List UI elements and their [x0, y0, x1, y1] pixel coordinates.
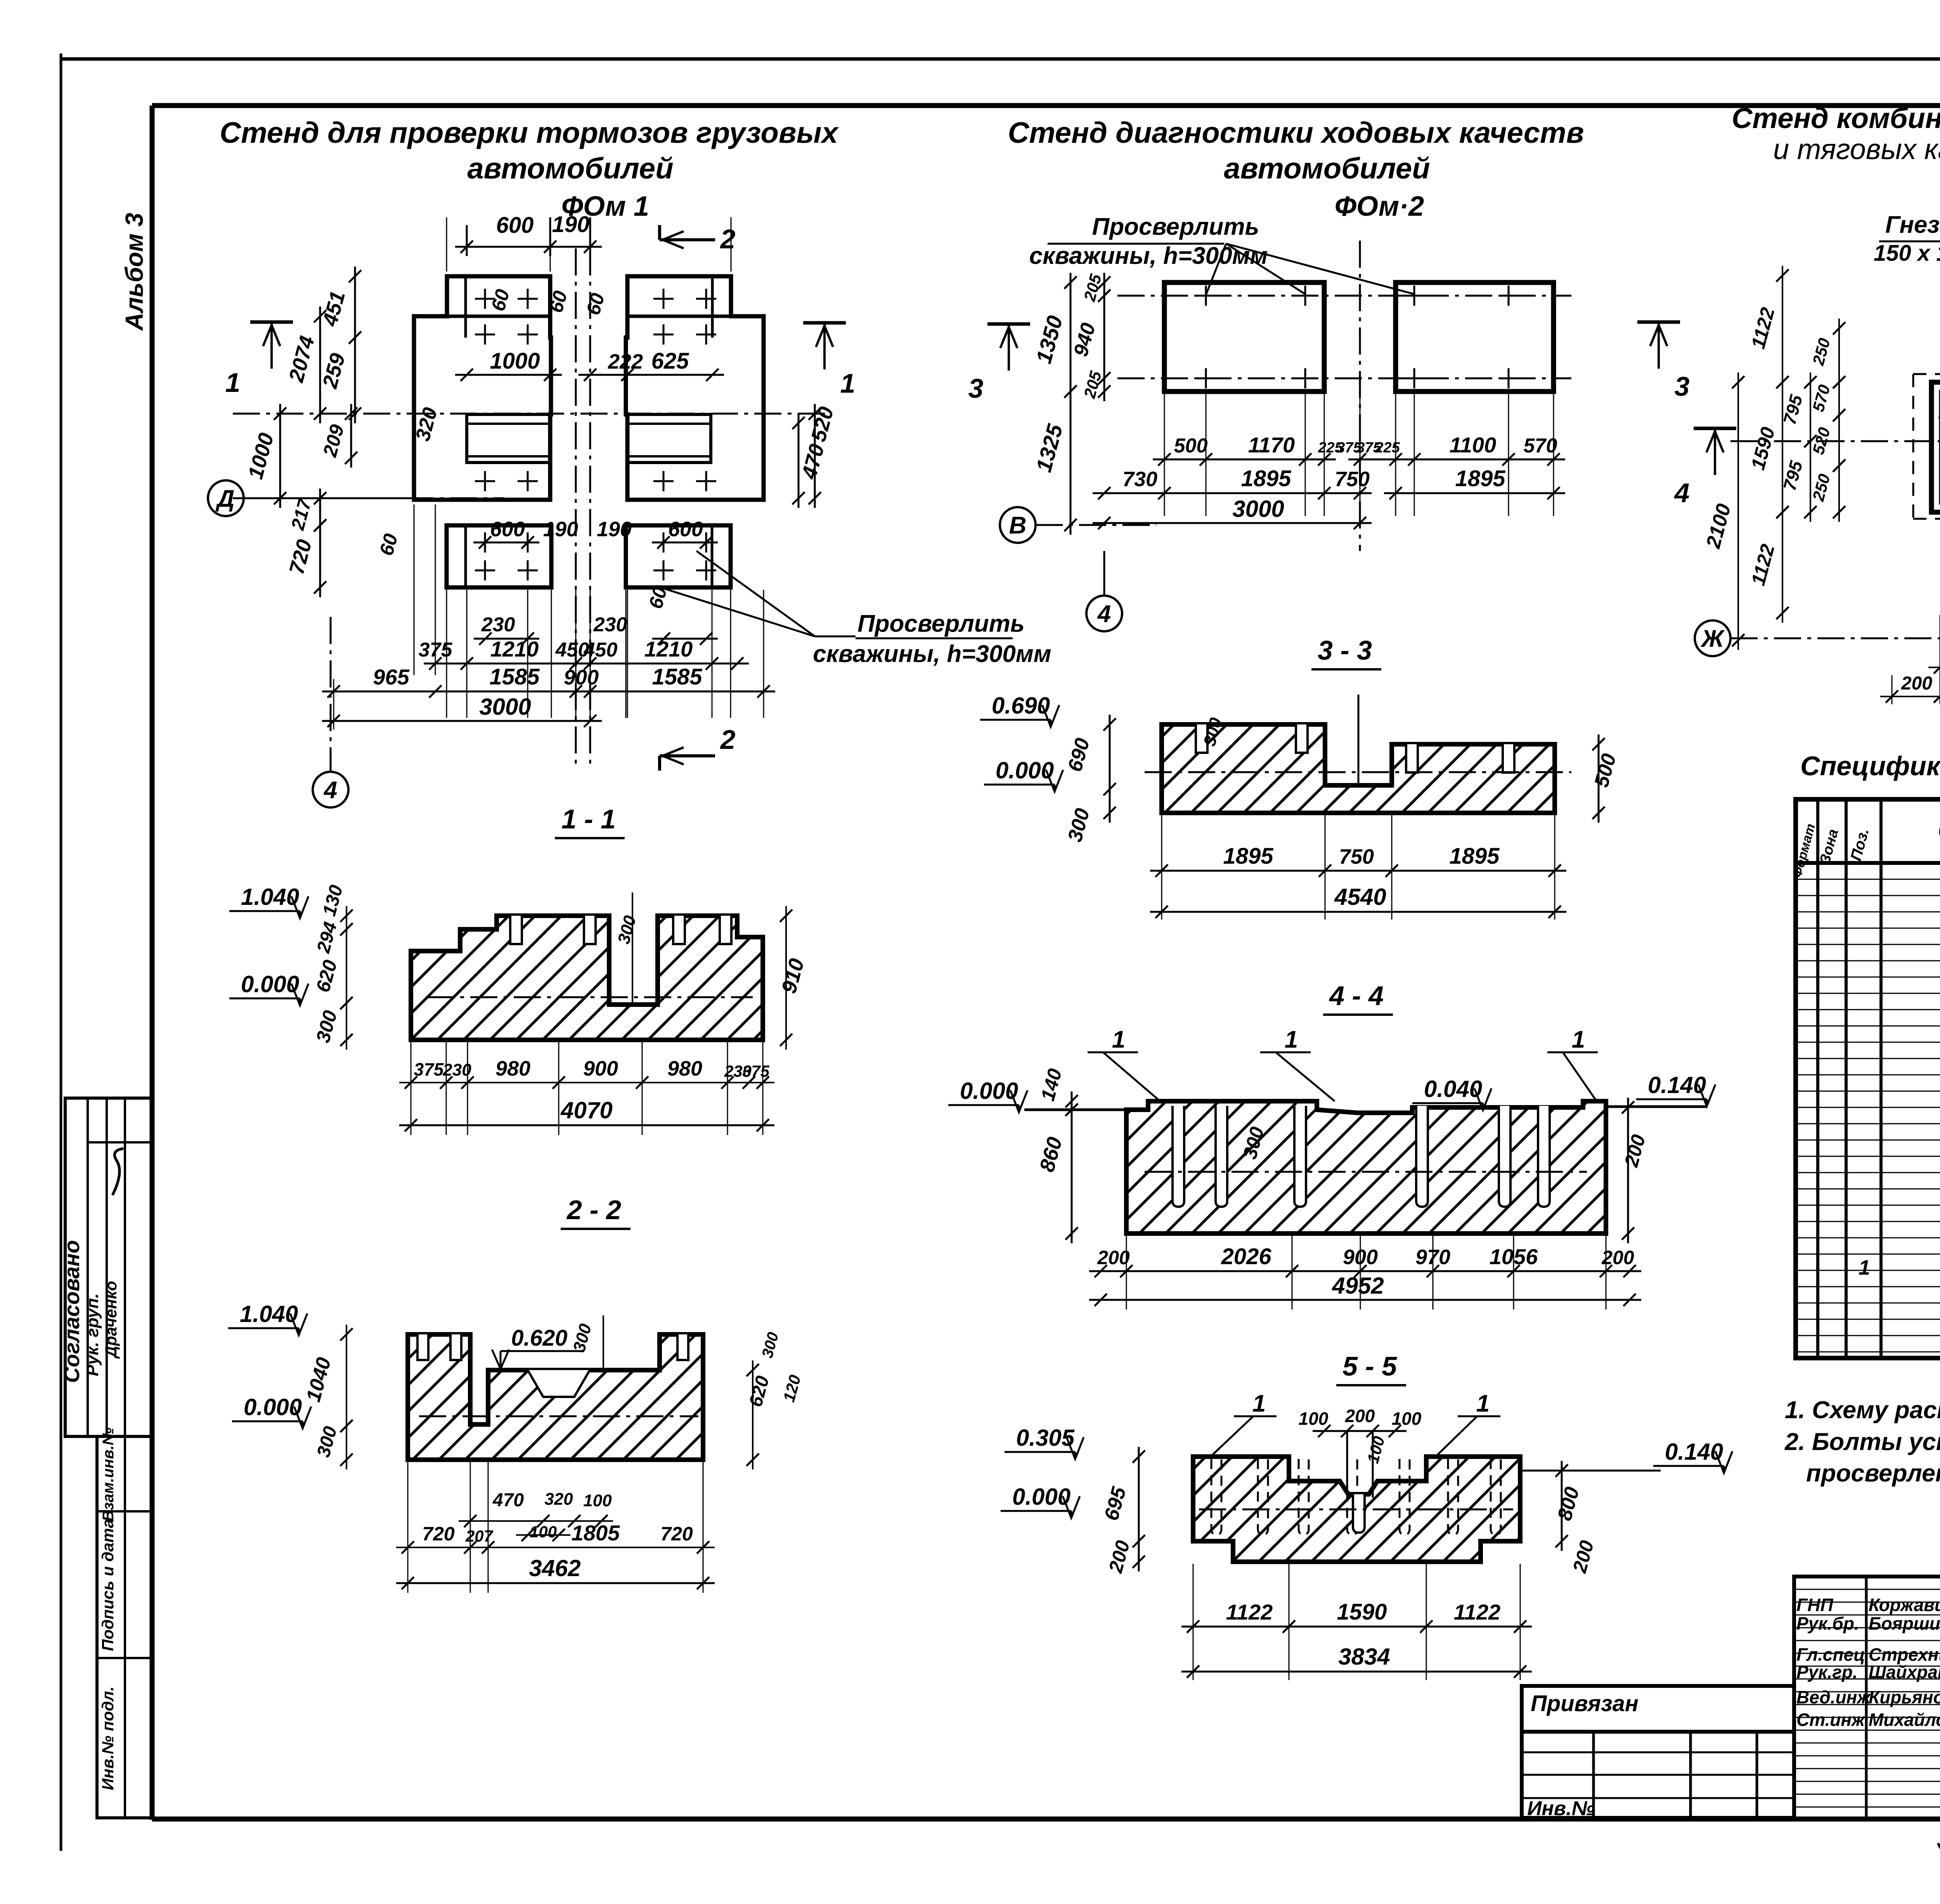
- svg-text:1: 1: [840, 368, 856, 398]
- svg-text:4 - 4: 4 - 4: [1329, 981, 1384, 1011]
- 1-1 bottom dims: [399, 1082, 774, 1083]
- svg-text:230: 230: [593, 613, 627, 636]
- svg-text:720: 720: [422, 1523, 455, 1545]
- svg-text:600: 600: [668, 518, 703, 541]
- svg-text:Ж: Ж: [1700, 625, 1725, 652]
- extension lines: [446, 590, 447, 718]
- svg-text:1: 1: [1476, 1390, 1490, 1417]
- svg-text:Рук. груп.: Рук. груп.: [83, 1293, 102, 1376]
- FOM1 right bottom pad: [626, 525, 731, 587]
- svg-text:4952: 4952: [1332, 1273, 1384, 1299]
- svg-text:230: 230: [481, 613, 515, 636]
- svg-text:1. Схему расположения фундам: 1. Схему расположения фундаментов и прим…: [1785, 1396, 1940, 1424]
- svg-text:190: 190: [543, 518, 578, 541]
- svg-text:Бояршинов: Бояршинов: [1869, 1613, 1940, 1634]
- title block signature table: [1794, 1577, 1940, 1819]
- 3-3 anchor slots: [1196, 724, 1207, 753]
- FOM1 mid dims: [455, 374, 562, 376]
- svg-text:1895: 1895: [1449, 844, 1500, 869]
- svg-text:200: 200: [1345, 1406, 1375, 1426]
- svg-text:1210: 1210: [490, 637, 539, 661]
- svg-text:0.690: 0.690: [992, 693, 1050, 719]
- svg-text:4540: 4540: [1334, 884, 1386, 910]
- svg-text:2. Болты устанавливать при: 2. Болты устанавливать при установке обо…: [1784, 1428, 1940, 1455]
- svg-text:100: 100: [583, 1491, 612, 1510]
- svg-text:3: 3: [968, 373, 984, 404]
- svg-text:500: 500: [1174, 435, 1208, 457]
- svg-text:1 - 1: 1 - 1: [561, 804, 616, 834]
- svg-text:4: 4: [323, 777, 337, 804]
- svg-text:1122: 1122: [1226, 1600, 1273, 1624]
- FOM1 bottom dim chains: [474, 638, 539, 640]
- svg-text:1.040: 1.040: [240, 1301, 298, 1327]
- svg-text:1895: 1895: [1241, 466, 1291, 491]
- 5-5 leaders 1: [1211, 1416, 1253, 1457]
- svg-text:Просверлить: Просверлить: [1092, 213, 1259, 240]
- FOM1 center lines: [575, 248, 577, 768]
- svg-text:100: 100: [530, 1523, 557, 1541]
- svg-text:750: 750: [1335, 468, 1370, 491]
- svg-text:0.140: 0.140: [1665, 1439, 1723, 1465]
- svg-text:1: 1: [1859, 1256, 1870, 1279]
- svg-text:3: 3: [1675, 371, 1690, 402]
- FOM3 left dim columns: [1782, 266, 1783, 392]
- svg-text:600: 600: [496, 213, 534, 238]
- svg-text:200: 200: [1097, 1247, 1130, 1268]
- svg-text:0.620: 0.620: [511, 1325, 567, 1351]
- svg-text:Кирьянова: Кирьянова: [1869, 1687, 1940, 1707]
- 4-4 center dash: [1145, 1171, 1587, 1173]
- 3-3 bottom dims: [1150, 870, 1566, 872]
- 2-2 bottom dims: [459, 1520, 613, 1522]
- svg-text:200: 200: [1901, 673, 1932, 694]
- svg-text:просверленные скважины на э: просверленные скважины на эпоксидном кле…: [1806, 1460, 1940, 1487]
- svg-text:2: 2: [720, 724, 736, 755]
- FOM1 bottom pad dims: [473, 542, 539, 544]
- svg-text:0.000: 0.000: [241, 971, 299, 997]
- svg-text:Вед.инж: Вед.инж: [1796, 1687, 1871, 1707]
- section 5-5 body: [1193, 1457, 1520, 1562]
- FOM1 leader note: [696, 551, 815, 636]
- svg-text:625: 625: [651, 348, 689, 374]
- svg-text:Спецификация монолитной ко: Спецификация монолитной конструкции фунд…: [1800, 751, 1940, 781]
- 5-5 bottom dims: [1181, 1626, 1532, 1628]
- svg-text:0.140: 0.140: [1648, 1072, 1706, 1098]
- 4-4 ground lines: [1024, 1109, 1126, 1111]
- FOM2 section marks: [987, 322, 1030, 326]
- svg-text:1: 1: [225, 367, 241, 398]
- 5-5 slots dashed: [1211, 1459, 1221, 1535]
- svg-text:225: 225: [1375, 440, 1400, 456]
- section 2-2 body: [408, 1334, 703, 1460]
- svg-text:скважины, h=300мм: скважины, h=300мм: [813, 641, 1051, 667]
- svg-text:720: 720: [660, 1523, 693, 1545]
- FOM2 left slab: [1164, 282, 1324, 392]
- 4-4 slots: [1173, 1106, 1184, 1207]
- svg-text:100: 100: [1299, 1409, 1329, 1429]
- svg-text:0.000: 0.000: [960, 1078, 1018, 1104]
- svg-text:Стенд диагностики ходовых к: Стенд диагностики ходовых качеств: [1008, 116, 1584, 149]
- svg-text:1100: 1100: [1450, 433, 1496, 457]
- FOM1 right unit body: [626, 276, 764, 500]
- svg-text:750: 750: [1339, 845, 1374, 868]
- svg-text:Альбом 3: Альбом 3: [120, 213, 148, 331]
- svg-text:1: 1: [1285, 1026, 1298, 1053]
- svg-text:ФОм·2: ФОм·2: [1335, 191, 1424, 222]
- FOM3 bottom dim chains: [1928, 667, 1940, 668]
- inner frame: [150, 106, 155, 1820]
- FOM2 center lines: [1117, 295, 1571, 297]
- FOM3 axis circle: [1695, 620, 1730, 656]
- svg-text:900: 900: [583, 1057, 618, 1080]
- svg-text:Рук.бр.: Рук.бр.: [1796, 1613, 1859, 1634]
- FOM2 axis circles: [1000, 507, 1036, 543]
- svg-text:Рук.гр.: Рук.гр.: [1796, 1662, 1858, 1682]
- 5-5 top small dims: [1313, 1430, 1406, 1432]
- FOM3 section marks: [1694, 427, 1736, 430]
- FOM1 right channel: [627, 414, 711, 463]
- 2-2 anchor slots: [417, 1334, 428, 1360]
- 3-3 center dash line: [1145, 771, 1571, 773]
- FOM2 bottom dims: [1153, 459, 1336, 461]
- 5-5 center dash: [1199, 1509, 1513, 1511]
- FOM1 dims top: [455, 246, 602, 248]
- svg-text:1210: 1210: [644, 637, 693, 661]
- svg-text:5 - 5: 5 - 5: [1342, 1351, 1397, 1381]
- svg-text:0.000: 0.000: [996, 757, 1054, 783]
- svg-text:ГНП: ГНП: [1796, 1595, 1833, 1615]
- FOM1 left unit body: [414, 276, 551, 500]
- 2-2 center dash: [419, 1415, 698, 1417]
- svg-text:100: 100: [1392, 1409, 1422, 1429]
- svg-text:222: 222: [608, 350, 643, 373]
- svg-text:Стенд комбинированный для к: Стенд комбинированный для контроля , тор…: [1732, 102, 1940, 134]
- svg-text:320: 320: [544, 1490, 573, 1509]
- FOM1 left vertical dim chains: [354, 267, 356, 347]
- section 1-1 body: [411, 916, 763, 1040]
- title block left part: [1522, 1686, 1794, 1732]
- FOM3 dashed excavation rects: [1912, 374, 1914, 519]
- svg-text:1590: 1590: [1337, 1599, 1387, 1625]
- svg-text:730: 730: [1122, 468, 1157, 491]
- svg-text:0.000: 0.000: [244, 1394, 302, 1420]
- FOM1 section marks: [250, 321, 293, 324]
- 2-2 trapezoid notch: [528, 1370, 590, 1397]
- FOM1 left bottom pad: [447, 525, 551, 587]
- svg-text:470: 470: [492, 1490, 524, 1511]
- svg-text:Подпись и дата: Подпись и дата: [99, 1519, 117, 1651]
- svg-text:4: 4: [1674, 478, 1690, 508]
- svg-text:0.040: 0.040: [1424, 1076, 1482, 1102]
- svg-text:Просверлить: Просверлить: [857, 610, 1025, 637]
- 1-1 anchor slots: [510, 916, 522, 944]
- 4-4 leaders 1: [1103, 1052, 1160, 1101]
- svg-text:570: 570: [1524, 435, 1557, 457]
- svg-text:965: 965: [373, 665, 409, 689]
- FOM1 left channel: [467, 414, 550, 463]
- FOM1 axis circles: [208, 480, 244, 516]
- svg-text:В: В: [1009, 512, 1027, 539]
- svg-text:4: 4: [1097, 601, 1111, 627]
- 1-1 center dash: [427, 996, 753, 998]
- svg-text:1: 1: [1572, 1026, 1585, 1053]
- svg-text:автомобилей: автомобилей: [467, 152, 673, 185]
- lower margin strip: [97, 1436, 152, 1818]
- spec table grid: [1796, 799, 1940, 1358]
- svg-text:600: 600: [490, 518, 525, 541]
- svg-text:Привязан: Привязан: [1531, 1691, 1639, 1716]
- svg-text:Стенд для проверки тормозов: Стенд для проверки тормозов грузовых: [220, 116, 839, 149]
- FOM2 bolts (plus marks): [1196, 295, 1216, 297]
- svg-text:Драченко: Драченко: [102, 1281, 120, 1359]
- svg-text:1170: 1170: [1248, 433, 1295, 457]
- svg-text:1585: 1585: [652, 664, 702, 690]
- svg-text:375: 375: [414, 1059, 444, 1079]
- svg-text:0.000: 0.000: [1012, 1484, 1070, 1510]
- svg-text:1: 1: [1112, 1026, 1125, 1053]
- svg-text:1895: 1895: [1455, 466, 1505, 491]
- svg-text:3834: 3834: [1338, 1644, 1390, 1670]
- svg-text:2: 2: [720, 224, 736, 254]
- svg-text:3 - 3: 3 - 3: [1318, 635, 1372, 665]
- svg-text:Взам.инв.№: Взам.инв.№: [100, 1428, 117, 1521]
- svg-text:Ст.инж: Ст.инж: [1796, 1710, 1866, 1730]
- svg-text:456: 456: [1938, 405, 1940, 425]
- svg-text:Согласовано: Согласовано: [59, 1240, 84, 1383]
- svg-text:3462: 3462: [529, 1555, 580, 1581]
- svg-text:450: 450: [584, 639, 618, 661]
- svg-text:Михайлова: Михайлова: [1869, 1710, 1940, 1730]
- svg-text:1585: 1585: [489, 664, 540, 690]
- FOM2 left dim columns: [1070, 273, 1072, 401]
- svg-text:980: 980: [667, 1057, 702, 1080]
- svg-text:3000: 3000: [479, 694, 531, 720]
- svg-text:375: 375: [742, 1062, 770, 1080]
- svg-text:190: 190: [597, 518, 632, 541]
- svg-text:Инв.№: Инв.№: [1527, 1797, 1595, 1820]
- svg-text:900: 900: [564, 666, 599, 689]
- svg-text:1.040: 1.040: [241, 884, 299, 910]
- svg-text:2 - 2: 2 - 2: [566, 1195, 621, 1225]
- section 3-3 body: [1162, 724, 1555, 813]
- svg-text:2026: 2026: [1221, 1244, 1271, 1269]
- svg-text:1895: 1895: [1223, 844, 1273, 869]
- svg-text:207: 207: [465, 1527, 494, 1545]
- svg-text:Коржавина: Коржавина: [1869, 1595, 1940, 1615]
- outer border: [60, 54, 62, 1851]
- svg-text:автомобилей: автомобилей: [1224, 152, 1430, 185]
- svg-text:1000: 1000: [490, 348, 540, 374]
- 5-5 central slot: [1353, 1494, 1365, 1533]
- svg-text:3000: 3000: [1232, 496, 1284, 522]
- svg-text:Обозначение: Обозначение: [1938, 815, 1940, 846]
- svg-text:190: 190: [552, 212, 590, 237]
- svg-text:1122: 1122: [1454, 1600, 1500, 1624]
- svg-text:Инв.№ подл.: Инв.№ подл.: [99, 1686, 117, 1790]
- FOM2 right slab: [1396, 282, 1554, 392]
- FOM3 left cross outer: [1931, 275, 1940, 613]
- svg-text:980: 980: [495, 1057, 530, 1080]
- svg-text:и тяговых качеств 2х и 3х: и тяговых качеств 2х и 3х осных автомоби…: [1773, 133, 1940, 165]
- FOM1 bolts: [475, 298, 495, 300]
- svg-text:1: 1: [1252, 1390, 1266, 1417]
- 4-4 bottom dims: [1089, 1270, 1641, 1272]
- svg-text:Гнезда: Гнезда: [1885, 211, 1940, 238]
- soglasovano block: [65, 1098, 152, 1436]
- svg-text:Шайхратова: Шайхратова: [1869, 1662, 1940, 1682]
- section 4-4 body: [1126, 1101, 1606, 1234]
- svg-text:4070: 4070: [560, 1097, 612, 1123]
- svg-text:1805: 1805: [572, 1521, 620, 1545]
- svg-text:150 х 150: 150 х 150: [1874, 241, 1940, 266]
- svg-text:Д: Д: [215, 485, 235, 512]
